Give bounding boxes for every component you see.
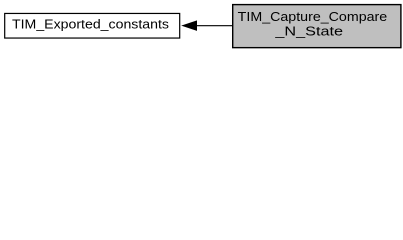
svg-text:TIM_Exported_constants: TIM_Exported_constants — [12, 17, 170, 32]
svg-text:TIM_Capture_Compare: TIM_Capture_Compare — [238, 9, 388, 24]
svg-text:_N_State: _N_State — [274, 23, 343, 38]
